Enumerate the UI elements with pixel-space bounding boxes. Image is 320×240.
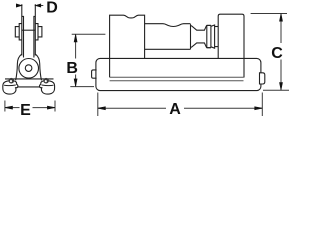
svg-text:E: E [20,102,31,119]
svg-text:D: D [46,0,58,17]
svg-text:B: B [66,60,78,77]
svg-text:C: C [271,45,283,62]
svg-text:A: A [169,101,181,118]
